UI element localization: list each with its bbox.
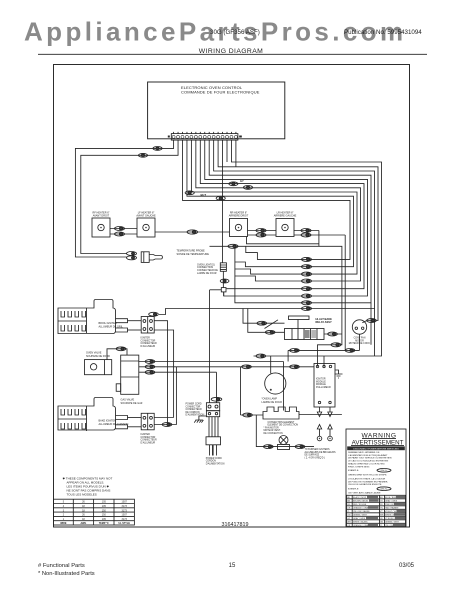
- igniter arrows up: [317, 425, 332, 437]
- svg-text:DE SURFACE: DE SURFACE: [305, 454, 320, 457]
- bake igniter comb slots: [58, 406, 87, 431]
- svg-text:D'ALIMENTATION: D'ALIMENTATION: [206, 462, 225, 465]
- conv fan connector CN31: [367, 319, 377, 323]
- wires box4 right: [294, 230, 319, 232]
- svg-text:DE FOND EST NOMMEE EN PRE: DE FOND EST NOMMEE EN PREMIER,: [348, 481, 388, 483]
- svg-text:ARRIERE DROIT: ARRIERE DROIT: [229, 215, 249, 218]
- svg-text:DEBRANCHEZ L'APPAREIL DE: DEBRANCHEZ L'APPAREIL DE: [348, 451, 380, 454]
- svg-text:WHITE / BLANC: WHITE / BLANC: [353, 521, 368, 524]
- svg-text:DE CORDON: DE CORDON: [186, 412, 200, 414]
- svg-text:FIRST, STRIPE NEXT.: FIRST, STRIPE NEXT.: [348, 466, 370, 468]
- svg-text:GREEN / VERT: GREEN / VERT: [385, 522, 400, 524]
- svg-text:105: 105: [102, 518, 107, 521]
- svg-text:EXAMPLE:: EXAMPLE:: [348, 469, 359, 472]
- svg-text:GN: VERT AVEC BANDE JAUNE: GN: VERT AVEC BANDE JAUNE: [348, 491, 381, 494]
- connector CN19 bake: [162, 423, 172, 427]
- cord connector block: [206, 437, 221, 445]
- staircase wire S5: [205, 140, 368, 296]
- svg-text:MODULE: MODULE: [316, 381, 326, 383]
- svg-text:YELLOW / JAUNE: YELLOW / JAUNE: [353, 510, 370, 513]
- conv fan feed diagonal: [362, 321, 367, 323]
- fanout connector CN4: [243, 186, 252, 190]
- wire box4 second loop: [344, 235, 346, 350]
- valve wire 2: [139, 366, 314, 368]
- connector strip P1: [168, 132, 242, 140]
- gas valve tab: [116, 384, 121, 392]
- svg-text:316417819: 316417819: [222, 522, 249, 528]
- power terminal block upper: [206, 403, 219, 411]
- svg-text:AWG: AWG: [81, 522, 87, 525]
- junction box J1: [221, 288, 226, 292]
- row connector CN r2: [302, 265, 312, 269]
- svg-text:MODULE: MODULE: [316, 384, 326, 386]
- burner row: [92, 212, 345, 367]
- svg-text:SEALED WIRE HAS COLOR NOTE: SEALED WIRE HAS COLOR NOTED: [348, 463, 385, 466]
- svg-text:CONNECTEUR: CONNECTEUR: [186, 409, 203, 411]
- valve wire 1: [139, 362, 284, 411]
- svg-text:D'ALLUMEUR: D'ALLUMEUR: [316, 386, 331, 389]
- svg-text:GREEN / VERT: GREEN / VERT: [353, 515, 368, 517]
- svg-text:D'ALLUMEUR: D'ALLUMEUR: [141, 345, 156, 348]
- probe connector ovals: [127, 252, 137, 260]
- svg-text:# Functional Parts: # Functional Parts: [38, 563, 85, 569]
- relay feed connector CN24: [257, 321, 267, 325]
- fan motor: [279, 436, 288, 445]
- svg-text:CONVECTION ELEMENT: CONVECTION ELEMENT: [268, 422, 295, 424]
- svg-text:IGNITER: IGNITER: [141, 434, 151, 436]
- pin 1 label: [168, 136, 170, 138]
- wire long lower run to module: [210, 246, 342, 366]
- svg-text:WIRE: WIRE: [60, 522, 67, 525]
- wire box4 loop down: [247, 231, 319, 247]
- connector CN28: [345, 349, 355, 353]
- svg-text:TAN / HAVANE: TAN / HAVANE: [385, 507, 399, 510]
- surface unit LR box: [276, 219, 294, 237]
- connector CN1: [153, 147, 162, 151]
- broil prongs: [116, 319, 128, 332]
- svg-text:150: 150: [102, 509, 107, 512]
- svg-text:MOTEUR VENT.: MOTEUR VENT.: [264, 430, 281, 432]
- connector CN20 on lamp feed: [256, 354, 266, 358]
- svg-text:TO BURNER IGNITERS: TO BURNER IGNITERS: [305, 449, 330, 451]
- connector CN18 valve: [145, 370, 155, 374]
- connector pair CN10: [256, 229, 266, 238]
- connector CN15: [116, 347, 126, 351]
- svg-text:105: 105: [102, 505, 107, 508]
- svg-text:GREEN WIRE WITH YELLOW STR: GREEN WIRE WITH YELLOW STRIPE.: [348, 474, 387, 476]
- svg-text:DE FAIRE TOUT SERVICE OU: DE FAIRE TOUT SERVICE OU ENTRETIEN: [348, 457, 392, 460]
- header rule: [38, 53, 427, 55]
- module ground: [335, 370, 343, 378]
- disconnect bar: [347, 446, 405, 450]
- wires box3-box4: [248, 230, 277, 232]
- svg-text:SOUPAPE DE GAZ: SOUPAPE DE GAZ: [121, 402, 143, 405]
- connector CN12: [228, 244, 238, 248]
- svg-text:3173: 3173: [122, 505, 128, 508]
- wire box1-box2 lower: [110, 233, 137, 235]
- wire J1 bottom to row6: [223, 292, 225, 296]
- svg-text:SONDE DE TEMPERATURE: SONDE DE TEMPERATURE: [177, 253, 210, 256]
- svg-text:* Non-Illustrated Parts: * Non-Illustrated Parts: [38, 571, 95, 577]
- strip pin ticks: [174, 132, 236, 134]
- oven light connector CN7: [220, 279, 229, 283]
- row connector CN r8: [302, 307, 312, 311]
- warning box: [346, 429, 406, 527]
- svg-text:IGNITER: IGNITER: [141, 338, 151, 340]
- wire box1-box2 upper: [110, 228, 137, 230]
- svg-text:1007: 1007: [122, 501, 128, 504]
- svg-text:LAMPE DE FOUR: LAMPE DE FOUR: [262, 401, 283, 404]
- svg-text:1007: 1007: [122, 514, 128, 517]
- svg-text:LAMPE DE FOUR: LAMPE DE FOUR: [197, 272, 217, 275]
- probe plug body: [141, 252, 149, 263]
- svg-text:GRAY / GRIS: GRAY / GRIS: [353, 517, 366, 520]
- connector CN26: [328, 332, 338, 336]
- bake wire right: [154, 367, 176, 425]
- svg-text:( 2, 4 OR 6 REQ'D ): ( 2, 4 OR 6 REQ'D ): [305, 457, 326, 459]
- connector CN23: [295, 445, 305, 449]
- svg-text:RELAY ASSY: RELAY ASSY: [316, 320, 332, 324]
- svg-text:IGNITOR: IGNITOR: [316, 379, 326, 381]
- svg-text:CONNECTOR: CONNECTOR: [141, 437, 156, 439]
- connector pair CN11: [301, 229, 311, 238]
- bake igniter element: [58, 398, 116, 431]
- cord tail wires: [210, 445, 217, 456]
- staircase wire S6: [200, 140, 364, 289]
- convection element: [263, 407, 299, 419]
- fanout connector CN6: [216, 196, 225, 200]
- broil igniter connector box: [141, 317, 154, 334]
- fanout connector CN5: [185, 191, 194, 195]
- relay right wire: [324, 333, 342, 335]
- svg-text:150: 150: [102, 514, 107, 517]
- svg-text:BLUE / BLEU: BLUE / BLEU: [385, 497, 398, 499]
- ignitor module box: [314, 364, 335, 408]
- svg-text:105: 105: [102, 501, 107, 504]
- svg-text:CONNECTEUR: CONNECTEUR: [141, 343, 158, 345]
- staircase wire S7: [196, 140, 361, 281]
- svg-text:POWER CORD: POWER CORD: [206, 458, 222, 460]
- svg-text:DE CONVECTION: DE CONVECTION: [264, 433, 283, 435]
- svg-text:GN-YL: GN-YL: [381, 470, 388, 472]
- pin 15 label: [239, 136, 242, 138]
- riser connector oval: [211, 397, 222, 401]
- connector CN29 on valve wire2: [242, 365, 252, 369]
- main diagram border: [54, 65, 410, 528]
- row connector CN r1: [302, 257, 312, 261]
- module output arrows down: [317, 407, 332, 417]
- module pin2 feed: [323, 356, 325, 367]
- svg-text:LE CAS OU IL INDIQUE A L: LE CAS OU IL INDIQUE A L'ENTRETIEN: [348, 459, 389, 462]
- svg-text:BROWN / BRUN: BROWN / BRUN: [353, 501, 369, 503]
- center lower components: [241, 303, 375, 450]
- svg-text:ELEMENT DE CONVECTION: ELEMENT DE CONVECTION: [268, 425, 299, 427]
- svg-text:15: 15: [229, 563, 236, 569]
- wire box2-box3: [155, 231, 230, 233]
- staircase wire S8: [191, 140, 357, 274]
- svg-text:BLACK / NOIR: BLACK / NOIR: [353, 496, 367, 499]
- oven light connector component: [220, 263, 226, 272]
- svg-text:GY: GY: [240, 179, 244, 183]
- wire gauge table: [54, 499, 135, 525]
- connector CN30 on valve wire2: [290, 365, 300, 369]
- connector pair CN8: [115, 227, 125, 237]
- svg-text:ARRIERE GAUCHE: ARRIERE GAUCHE: [274, 215, 297, 218]
- row connector CN r5: [302, 287, 312, 291]
- svg-text:CONNECTOR: CONNECTOR: [141, 340, 156, 342]
- svg-text:WH: WH: [380, 515, 384, 517]
- svg-text:L'ISOLANT EST RAYE. LA COU: L'ISOLANT EST RAYE. LA COULEUR: [348, 478, 386, 481]
- oven valve box: [85, 360, 112, 375]
- connector CN9: [187, 230, 198, 234]
- broil igniter comb slots: [58, 308, 87, 333]
- svg-text:CELLE DE LA RAYURE ENSUITE: CELLE DE LA RAYURE ENSUITE.: [348, 483, 382, 486]
- connector CN13 on module feed: [331, 343, 341, 347]
- svg-text:SOUPAPE DE FOUR: SOUPAPE DE FOUR: [86, 355, 110, 358]
- svg-text:AVANT GAUCHE: AVANT GAUCHE: [136, 215, 156, 218]
- pin13 drop: [226, 140, 228, 162]
- svg-text:CONNECTEUR: CONNECTEUR: [141, 440, 158, 442]
- relay assembly body: [285, 329, 325, 340]
- svg-text:RED / ROUGE: RED / ROUGE: [353, 504, 367, 506]
- svg-text:UL STYLE: UL STYLE: [118, 522, 130, 525]
- svg-text:GN-YL: GN-YL: [381, 489, 388, 491]
- svg-text:HI-ALT BAKE: HI-ALT BAKE: [316, 317, 333, 321]
- svg-text:* FAN MOTOR: * FAN MOTOR: [264, 426, 279, 429]
- temperature probe tip: [149, 255, 162, 261]
- svg-text:GRAY / GRIS: GRAY / GRIS: [385, 500, 398, 503]
- fan motor bottom wire: [256, 415, 314, 447]
- conv fan bottom wire: [359, 334, 361, 350]
- svg-text:3173: 3173: [122, 509, 128, 512]
- valve bridge wire: [107, 349, 127, 360]
- svg-text:TOUS LES MODELES: TOUS LES MODELES: [67, 493, 97, 497]
- convection element left wire: [241, 367, 264, 415]
- row connector CN r6: [302, 294, 312, 298]
- power terminal block lower: [206, 411, 219, 417]
- relay switch arm: [265, 320, 279, 329]
- connector CN27: [290, 349, 300, 353]
- svg-text:EXEMPLE:: EXEMPLE:: [348, 489, 359, 491]
- relay feed wires: [243, 309, 285, 333]
- lower left components: [58, 300, 314, 445]
- wire from J1 left down to power block: [210, 289, 222, 291]
- row connector CN r4: [302, 279, 312, 283]
- staircase wire S1: [231, 140, 381, 356]
- module/motor horizontal wires: [288, 350, 359, 361]
- row connector CN r3: [302, 272, 312, 276]
- staircase wire S2: [218, 140, 378, 321]
- svg-text:POWER CORD: POWER CORD: [186, 404, 202, 406]
- gas valve body: [121, 355, 139, 394]
- svg-text:ALLUMEURS DE BRULEURS: ALLUMEURS DE BRULEURS: [305, 451, 336, 454]
- connector CN17 valve: [145, 365, 155, 369]
- oven lamp wire: [270, 356, 272, 373]
- svg-text:30G (GF356 ASF): 30G (GF356 ASF): [210, 29, 260, 36]
- wires group: [75, 140, 381, 356]
- svg-text:L'ALIMENTATION ELECTRIQUE AV: L'ALIMENTATION ELECTRIQUE AVANT: [348, 454, 388, 457]
- oven light string drop: [222, 140, 224, 263]
- surface unit RR box: [230, 219, 248, 237]
- row connector CN r7: [302, 301, 312, 305]
- svg-text:TEMP °C: TEMP °C: [99, 522, 109, 525]
- svg-text:BLT: BLT: [201, 193, 207, 197]
- convection element right wire: [299, 414, 342, 416]
- ground symbol G1: [194, 416, 206, 423]
- bake prongs: [116, 416, 128, 429]
- cord wires below block: [209, 417, 218, 437]
- svg-text:DISCONNECT POWER BEFORE SERVIC: DISCONNECT POWER BEFORE SERVICING: [353, 448, 399, 450]
- staircase wire S3: [159, 140, 375, 315]
- wire pin2 left run: [81, 140, 178, 254]
- oven light wire: [222, 271, 224, 287]
- note text: [63, 476, 113, 496]
- fanout connector CN3: [229, 182, 238, 186]
- riser wires: [210, 290, 217, 403]
- svg-text:03/05: 03/05: [399, 563, 415, 569]
- connector CN21: [243, 413, 253, 417]
- connector CN22: [264, 445, 274, 449]
- svg-text:CORDON: CORDON: [206, 461, 217, 463]
- connector CN14 above broil box: [149, 312, 159, 316]
- svg-text:CONNECTOR: CONNECTOR: [186, 406, 201, 408]
- broil wires right: [154, 321, 173, 425]
- svg-text:3173: 3173: [122, 518, 128, 521]
- surface unit RF box: [92, 218, 110, 237]
- svg-text:AVANT DROIT: AVANT DROIT: [93, 215, 110, 218]
- svg-text:WH: WH: [347, 522, 351, 524]
- relay cap bar: [289, 316, 310, 320]
- electronic oven control box U1: [148, 82, 285, 139]
- bake igniter connector box: [141, 413, 154, 430]
- svg-text:COMMANDE DE FOUR ELECTRONIQ: COMMANDE DE FOUR ELECTRONIQUE: [181, 90, 260, 95]
- connector CN16 valve: [145, 360, 155, 364]
- color code table: [347, 495, 406, 527]
- oven lamp: [265, 373, 286, 394]
- wire pin1 left run: [75, 140, 173, 257]
- staircase wire S10: [183, 140, 351, 259]
- svg-text:Publication No. 5995431094: Publication No. 5995431094: [344, 29, 422, 36]
- connector CN2: [138, 153, 147, 157]
- svg-text:ALLUMEUR DE CUISSON: ALLUMEUR DE CUISSON: [99, 423, 129, 426]
- staircase wire S4: [209, 140, 371, 303]
- broil igniter element: [58, 300, 116, 334]
- module bottom pins: [318, 401, 320, 403]
- extra bundle verticals to lower buses: [371, 303, 375, 356]
- igniter terminals: [317, 436, 322, 441]
- valve wire 3: [139, 371, 217, 373]
- staircase wire S9: [187, 140, 354, 267]
- relay feed connector CN25: [265, 330, 275, 334]
- surface unit LF box: [137, 218, 155, 237]
- power cord assembly: [186, 290, 225, 465]
- conv fan motor: [352, 320, 366, 334]
- right lower components: [305, 319, 377, 460]
- svg-text:D'ALLUMEUR: D'ALLUMEUR: [141, 441, 156, 444]
